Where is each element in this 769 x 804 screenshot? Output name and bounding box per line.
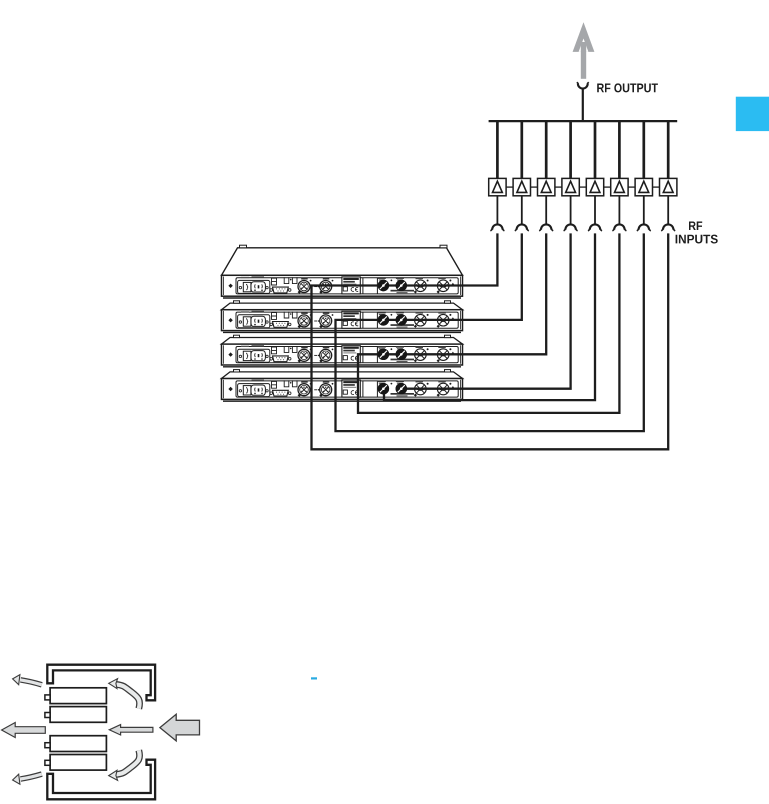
airflow arrow: intake right (large) [160, 714, 200, 741]
airflow diagram: rack enclosure top bracket [47, 665, 155, 701]
wire: RX3 ANT II to RF input 3 [401, 233, 546, 354]
airflow diagram: rack unit 3 [50, 736, 106, 752]
receiver RX1 top cover [222, 245, 463, 275]
receiver RX4 rear panel [222, 379, 463, 402]
wire: pad link 2-3 [531, 186, 538, 188]
wire: pad 1 to input plug 1 [496, 196, 498, 224]
combiner bus node [489, 120, 678, 122]
RF input plug 1 [490, 224, 504, 231]
attenuator pad 8 [660, 178, 677, 195]
attenuator pad 2 [513, 178, 530, 195]
RF input plug 8 [661, 224, 675, 231]
airflow arrow: curved top left [13, 675, 42, 685]
wire: pad 8 to input plug 8 [667, 196, 669, 224]
wire: pad link 6-7 [628, 186, 635, 188]
wire: bus drop 4 [569, 121, 572, 179]
wire: pad link 3-4 [555, 186, 562, 188]
RF input plug 6 [612, 224, 626, 231]
wire: pad link 4-5 [579, 186, 586, 188]
receiver RX1 rear panel [222, 275, 463, 298]
RF input plug 7 [637, 224, 651, 231]
airflow arrow: exhaust left [2, 723, 46, 738]
attenuator pad 1 [489, 178, 506, 195]
RF input plug 2 [515, 224, 529, 231]
RF output socket connector [577, 82, 589, 88]
airflow arrow: curved bottom right [109, 750, 140, 780]
wire: RX1 ANT I to RF input 8 [312, 233, 669, 449]
wire: bus drop 6 [618, 121, 621, 179]
cyan page tab marker [736, 97, 769, 131]
receiver RX2 rear panel [222, 310, 463, 333]
airflow arrow: intake middle [109, 725, 153, 735]
RF input plug 5 [588, 224, 602, 231]
receiver RX4 top cover [222, 370, 463, 379]
RX2 BNC sockets ANT I / ANT II [378, 314, 407, 325]
receiver RX2 top cover [222, 301, 463, 310]
wire: RX4 ANT II to RF input 4 [401, 233, 570, 388]
wire: RF output stem [582, 89, 584, 122]
attenuator pad 3 [538, 178, 555, 195]
receiver RX3 rear panel [222, 344, 463, 367]
airflow diagram: rack unit 1 [50, 688, 106, 704]
wire: pad 3 to input plug 3 [545, 196, 547, 224]
wire: pad 5 to input plug 5 [594, 196, 596, 224]
airflow diagram: rack enclosure bottom bracket [47, 760, 155, 800]
RF input plug 4 [564, 224, 578, 231]
airflow arrow: curved top right [109, 679, 140, 709]
RX1 BNC sockets ANT I / ANT II [378, 280, 407, 291]
wire: RX4 ANT I to RF input 5 [384, 233, 595, 400]
wire: RX1 ANT II to RF input 1 [401, 233, 497, 285]
wire: bus drop 1 [496, 121, 499, 179]
airflow arrow: curved bottom left [13, 774, 42, 784]
cyan hyperlink dash [311, 677, 317, 679]
wire: RX2 ANT II to RF input 2 [401, 233, 522, 320]
airflow diagram: unit front tabs [45, 695, 50, 765]
wire: pad link 5-6 [604, 186, 611, 188]
wire: RX3 ANT I to RF input 6 [358, 233, 619, 413]
airflow diagram: rack unit 4 [50, 755, 106, 771]
RX3 BNC sockets ANT I / ANT II [378, 349, 407, 360]
attenuator pad 6 [611, 178, 628, 195]
RF input plug 3 [539, 224, 553, 231]
wire: pad 4 to input plug 4 [570, 196, 572, 224]
wire: bus drop 7 [642, 121, 645, 179]
label RF OUTPUT [597, 83, 658, 92]
wire: bus drop 5 [594, 121, 597, 179]
RX4 BNC sockets ANT I / ANT II [378, 383, 407, 394]
attenuator pad 4 [562, 178, 579, 195]
wire: pad 2 to input plug 2 [521, 196, 523, 224]
attenuator pad 5 [586, 178, 603, 195]
wire: pad link 1-2 [506, 186, 513, 188]
attenuator pad 7 [635, 178, 652, 195]
wire: RX2 ANT I to RF input 7 [336, 233, 644, 431]
airflow diagram: rack unit 2 [50, 707, 106, 723]
antenna ANT (gray arrow) [573, 22, 595, 79]
wire: pad 6 to input plug 6 [618, 196, 620, 224]
label RF INPUTS [689, 222, 702, 231]
wire: pad 7 to input plug 7 [643, 196, 645, 224]
wire: bus drop 2 [520, 121, 523, 179]
wire: bus drop 8 [667, 121, 670, 179]
receiver RX3 top cover [222, 335, 463, 344]
wire: pad link 7-8 [653, 186, 660, 188]
wire: bus drop 3 [545, 121, 548, 179]
